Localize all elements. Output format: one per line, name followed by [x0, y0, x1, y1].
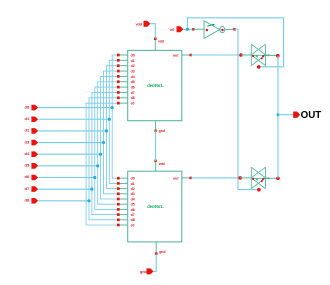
svg-text:vdd: vdd	[159, 162, 165, 166]
wire bus d3 (staircase top-pin to bottom-pin)	[104, 71, 119, 194]
U1 pin d1	[118, 59, 127, 61]
pin inverter input	[192, 28, 195, 31]
output pin OUT	[293, 112, 300, 118]
T2 signal path	[251, 177, 265, 179]
transistor T1 transmission gate	[241, 54, 251, 56]
T1 inner pin b	[262, 55, 264, 57]
wire bus d0 (staircase top-pin to bottom-pin)	[112, 55, 118, 178]
wire gnd	[154, 254, 157, 272]
transistor T2 transmission gate	[240, 177, 251, 179]
node T2 input	[238, 176, 242, 180]
junction e0	[186, 28, 189, 31]
svg-text:gnd: gnd	[140, 270, 147, 274]
svg-text:d0: d0	[131, 53, 135, 57]
pin inverter output	[233, 28, 236, 31]
T1 direction arrow	[265, 54, 270, 56]
U1 pin d4	[118, 75, 127, 77]
svg-text:vdd: vdd	[158, 40, 164, 44]
svg-text:tg: tg	[256, 54, 259, 58]
svg-text:dec9to1.: dec9to1.	[147, 204, 164, 209]
svg-text:e0: e0	[131, 102, 135, 106]
U2 pin d1	[118, 182, 127, 184]
wire bus d8 (staircase top-pin to bottom-pin)	[89, 98, 118, 220]
wire input d1	[38, 118, 109, 120]
wire T2 gate stub	[257, 189, 260, 190]
svg-text:tg: tg	[256, 177, 259, 181]
wire U2 out to T2	[191, 177, 241, 179]
svg-text:d1: d1	[131, 182, 135, 186]
op-amp U3 inverter	[193, 28, 204, 30]
svg-text:d4: d4	[131, 197, 135, 201]
svg-text:d8: d8	[131, 218, 135, 222]
wire input d3	[38, 142, 103, 144]
U1 pin e0	[118, 102, 127, 104]
U1 pin d7	[118, 91, 127, 93]
wire bus d6 (staircase top-pin to bottom-pin)	[95, 87, 119, 209]
T2 direction arrow	[265, 177, 270, 179]
U2 pin gnd	[155, 242, 157, 254]
svg-text:d0: d0	[131, 177, 135, 181]
wire U1 out to T1	[191, 54, 241, 56]
U2 pin vdd	[155, 161, 157, 171]
U2 pin d6	[118, 208, 127, 210]
svg-text:d6: d6	[25, 174, 30, 179]
U1 pin gnd	[155, 121, 157, 131]
svg-text:d0: d0	[25, 104, 30, 109]
junction d3	[102, 141, 105, 144]
junction OUT	[277, 113, 280, 116]
wire e0 loop to transmission gate T1 control	[187, 18, 283, 67]
node T1 output	[276, 54, 280, 58]
svg-text:gnd: gnd	[159, 250, 165, 254]
T1 inner pin a	[252, 55, 254, 57]
T1 pin label b2	[261, 57, 263, 59]
U1 pin d8	[118, 97, 127, 99]
svg-text:d5: d5	[131, 203, 135, 207]
U2 pin d0	[118, 177, 127, 179]
svg-text:d2: d2	[131, 187, 135, 191]
U2 pin d3	[118, 193, 127, 195]
U1 pin d3	[118, 70, 127, 72]
wire input d2	[38, 130, 106, 132]
svg-text:d6: d6	[131, 208, 135, 212]
wire e0 to junction	[184, 28, 194, 30]
svg-text:dec9to1.: dec9to1.	[147, 83, 164, 88]
wire bus d2 (staircase top-pin to bottom-pin)	[106, 66, 118, 189]
svg-text:vdd: vdd	[136, 22, 142, 26]
node T2 control	[257, 188, 261, 192]
svg-text:gnd: gnd	[159, 129, 165, 133]
U1 pin vdd	[154, 39, 156, 51]
U3 pin label a	[206, 29, 208, 31]
U2 pin d8	[118, 219, 127, 221]
U2 pin d7	[118, 214, 127, 216]
node T1 input	[239, 53, 243, 57]
mux block U2 dec9to1 (bottom)	[128, 171, 182, 242]
svg-text:e0: e0	[170, 28, 174, 32]
svg-text:d2: d2	[131, 64, 135, 68]
wire inverter output	[225, 28, 235, 30]
junction d6	[93, 176, 96, 179]
svg-text:d6: d6	[131, 86, 135, 90]
svg-text:d2: d2	[25, 128, 30, 133]
junction d5	[96, 164, 99, 167]
svg-text:d5: d5	[25, 163, 30, 168]
svg-text:d7: d7	[25, 186, 30, 191]
junction d2	[105, 129, 108, 132]
svg-text:d8: d8	[131, 96, 135, 100]
U2 pin e0	[118, 224, 127, 226]
wire inverter output to transmission gate T2 control	[235, 29, 259, 189]
wire to OUT pin	[278, 114, 294, 116]
svg-text:d7: d7	[131, 91, 135, 95]
node T2 output	[276, 177, 280, 181]
U2 pin d2	[118, 188, 127, 190]
U3 pin label y	[221, 29, 223, 31]
wire input d7	[38, 188, 92, 190]
svg-text:d5: d5	[131, 80, 135, 84]
wire input d4	[38, 153, 100, 155]
wire bus d4 (staircase top-pin to bottom-pin)	[101, 76, 119, 199]
svg-text:d8: d8	[25, 198, 30, 203]
wire bus d7 (staircase top-pin to bottom-pin)	[92, 92, 118, 214]
U1 pin d2	[118, 65, 127, 67]
svg-text:d7: d7	[131, 213, 135, 217]
wire bus d5 (staircase top-pin to bottom-pin)	[98, 82, 119, 204]
wire vdd	[151, 24, 156, 39]
T1 signal path	[251, 54, 265, 56]
svg-text:d1: d1	[131, 59, 135, 63]
T2 inner pin b	[262, 178, 264, 180]
node T1 control	[257, 65, 261, 69]
svg-text:out: out	[173, 54, 179, 58]
svg-text:d3: d3	[131, 69, 135, 73]
svg-text:d3: d3	[25, 139, 30, 144]
svg-text:d1: d1	[25, 116, 30, 121]
wire bus e-line (leftmost vertical pin10-pin10)	[86, 103, 118, 225]
svg-text:OUT: OUT	[301, 110, 322, 121]
wire input d8	[38, 200, 89, 202]
U1 pin d6	[118, 86, 127, 88]
wire T1 gate stub	[257, 66, 259, 67]
svg-text:e0: e0	[131, 223, 135, 227]
wire output bus vertical	[277, 56, 279, 179]
U3 direction arrow	[207, 24, 214, 26]
svg-text:d3: d3	[131, 192, 135, 196]
wire input d5	[38, 165, 97, 167]
svg-text:d4: d4	[131, 75, 135, 79]
wire bus d1 (staircase top-pin to bottom-pin)	[109, 60, 118, 183]
mux block U1 dec9to1 (top)	[128, 50, 182, 120]
wire input d6	[38, 177, 95, 179]
U2 pin d4	[118, 198, 127, 200]
wire input d0	[38, 107, 112, 109]
U1 pin d0	[118, 54, 127, 56]
U2 pin d5	[118, 203, 127, 205]
T2 inner pin a	[252, 178, 254, 180]
wire T1 output stub	[266, 54, 278, 56]
junction d8	[87, 199, 90, 202]
T2 pin label b2	[261, 180, 263, 182]
junction d7	[90, 188, 93, 191]
junction d1	[108, 118, 111, 121]
U1 pin d5	[118, 81, 127, 83]
svg-text:out: out	[173, 176, 179, 180]
wire gnd-vdd rail between blocks	[155, 131, 157, 161]
junction d4	[99, 153, 102, 156]
junction d0	[111, 106, 114, 109]
wire T2 output stub	[266, 177, 279, 179]
svg-text:d4: d4	[25, 151, 30, 156]
